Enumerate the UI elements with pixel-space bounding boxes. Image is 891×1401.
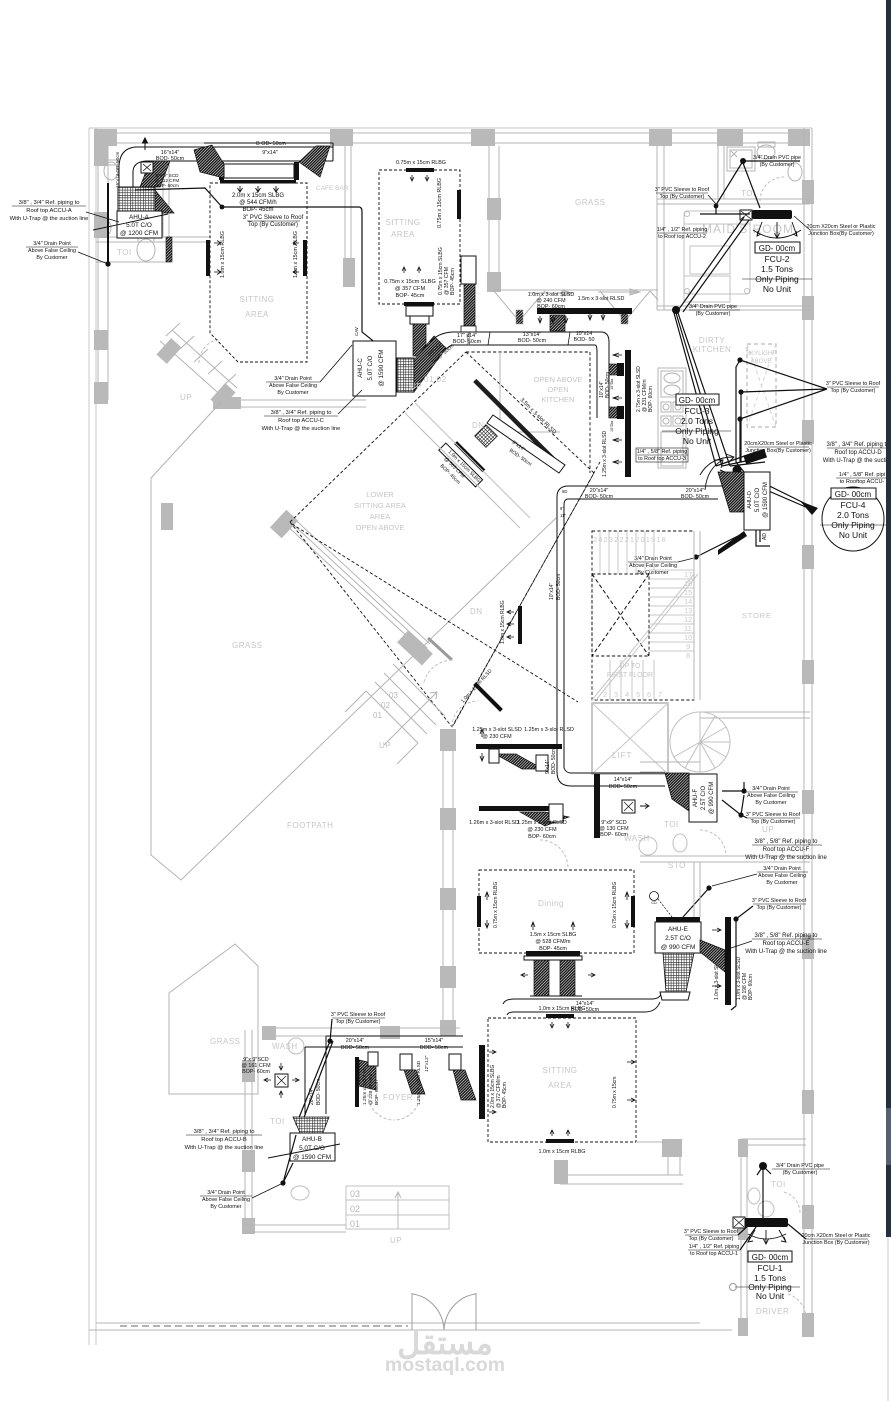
svg-text:@ 230 CFM: @ 230 CFM (527, 827, 557, 833)
bottom main door (412, 1293, 476, 1330)
right side arrows (627, 1060, 635, 1102)
svg-text:1.0m x 15cm RLBG: 1.0m x 15cm RLBG (538, 1006, 585, 1012)
svg-text:OPEN: OPEN (547, 385, 568, 394)
svg-text:No Unit: No Unit (756, 1291, 785, 1301)
svg-text:DRIVER: DRIVER (756, 1307, 789, 1316)
svg-text:5.0T C/O: 5.0T C/O (367, 355, 374, 380)
grille bar below silencer (220, 180, 296, 184)
svg-text:FCU-4: FCU-4 (840, 500, 865, 510)
arrows pointing left at vertical bar (613, 353, 622, 464)
AHU-B label box (290, 1133, 335, 1161)
svg-text:AHU-E: AHU-E (668, 926, 688, 933)
svg-text:9: 9 (686, 642, 690, 651)
wash basin (99, 220, 111, 236)
duct horizontal (305, 1036, 463, 1047)
top wall band (96, 132, 810, 134)
svg-text:No Unit: No Unit (839, 530, 868, 540)
svg-text:20"x14": 20"x14" (346, 1038, 365, 1044)
duct section separators (488, 332, 490, 345)
bottom boundary wall (96, 1322, 700, 1324)
svg-text:Top (By Customer): Top (By Customer) (660, 194, 705, 200)
svg-text:3/4" Drain PVC pipe: 3/4" Drain PVC pipe (776, 1163, 824, 1169)
svg-text:3/4" Drain PVC pipe: 3/4" Drain PVC pipe (689, 304, 737, 310)
svg-text:Above False Ceiling: Above False Ceiling (28, 248, 76, 254)
basin (788, 163, 802, 181)
walls below sitting (560, 1174, 683, 1176)
arrows below bars (538, 313, 605, 323)
svg-text:AHU-B: AHU-B (302, 1136, 322, 1143)
corridor walls (640, 771, 665, 773)
GD-00cm FCU-1 (748, 1251, 792, 1262)
svg-text:9"x14": 9"x14" (262, 150, 278, 156)
right vertical slot bar (725, 917, 731, 1005)
west wall of wing (244, 1030, 246, 1232)
duct elbow up to AHU-E (645, 992, 662, 1012)
top slot bar (406, 168, 434, 172)
svg-text:1.5 Tons: 1.5 Tons (761, 264, 793, 274)
AHU-A unit crosshatch (118, 187, 155, 213)
svg-text:By Customer: By Customer (637, 570, 668, 576)
svg-text:10"x14": 10"x14" (549, 583, 555, 600)
9x9 SCD (622, 800, 635, 813)
svg-text:11": 11" (560, 513, 566, 518)
svg-text:1.25m x 3-slot SLSD: 1.25m x 3-slot SLSD (517, 820, 567, 826)
svg-text:SITTING: SITTING (542, 1066, 577, 1075)
svg-text:FOOTPATH: FOOTPATH (287, 821, 333, 830)
slot diffuser row 1 (476, 744, 562, 749)
wc fixtures (639, 837, 657, 855)
stairs 03 02 01 (346, 1186, 449, 1229)
svg-text:2.5T C/O: 2.5T C/O (665, 935, 691, 942)
dots and leaders (737, 357, 742, 362)
FCU-2 unit (752, 210, 792, 219)
svg-text:0.75m x 15cm SLBG: 0.75m x 15cm SLBG (384, 279, 436, 285)
svg-text:20cm X20cm Steel or Plastic: 20cm X20cm Steel or Plastic (802, 1233, 871, 1239)
grass pentagon (169, 944, 258, 1094)
svg-text:CD: CD (651, 901, 657, 905)
svg-text:24232221201918: 24232221201918 (593, 535, 667, 544)
dots + pipes (741, 788, 746, 793)
dashed X void (592, 574, 649, 656)
svg-text:5.0T C/O: 5.0T C/O (755, 488, 761, 513)
svg-text:With U-Trap @ the suction: With U-Trap @ the suction (823, 458, 891, 464)
svg-text:Roof top ACCU-A: Roof top ACCU-A (26, 208, 72, 214)
svg-text:BOP- 45cm: BOP- 45cm (242, 207, 273, 213)
svg-text:KITCHEN: KITCHEN (542, 395, 575, 404)
svg-text:Roof top ACCU-B: Roof top ACCU-B (201, 1137, 247, 1143)
svg-text:to Roof top ACCU-2: to Roof top ACCU-2 (658, 234, 706, 240)
svg-text:Roof top ACCU-C: Roof top ACCU-C (278, 418, 324, 424)
svg-text:1.0m x 15cm RLBG: 1.0m x 15cm RLBG (293, 231, 299, 278)
right flex to sitting bar (449, 1054, 461, 1070)
svg-text:BOP- 60cm: BOP- 60cm (528, 834, 556, 840)
tread lines top band (600, 531, 654, 574)
duct elbow to vertical (595, 332, 609, 418)
svg-text:@ 228 CFM/m: @ 228 CFM/m (368, 1074, 374, 1105)
svg-text:BOD- 50cm: BOD- 50cm (453, 339, 482, 345)
stairs 03 02 01 lower left of diamond (345, 664, 445, 764)
svg-text:12"x12": 12"x12" (424, 1055, 430, 1072)
svg-text:With U-Trap @ the suction line: With U-Trap @ the suction line (185, 1145, 264, 1151)
grass bay zigzag (494, 291, 658, 321)
arrows row1 (480, 729, 484, 761)
AHU-A label box (117, 211, 162, 238)
svg-text:3" PVC Sleeve to Roof: 3" PVC Sleeve to Roof (243, 215, 304, 221)
svg-text:3/4" Drain Point: 3/4" Drain Point (274, 376, 312, 382)
svg-text:6: 6 (647, 690, 651, 699)
svg-text:3" PVC Sleeve to Roof: 3" PVC Sleeve to Roof (826, 381, 881, 387)
svg-text:2.0m x 15cm SLBG: 2.0m x 15cm SLBG (232, 193, 284, 199)
AHU-B flex cone (293, 1117, 329, 1135)
drain blob (672, 306, 680, 314)
svg-text:3/4" Drain Point: 3/4" Drain Point (763, 866, 801, 872)
svg-text:AREA: AREA (245, 310, 269, 319)
svg-text:01 02: 01 02 (424, 375, 447, 384)
bottom slot bar (546, 1139, 574, 1143)
svg-text:Above False Ceiling: Above False Ceiling (747, 793, 795, 799)
duct stub below (406, 306, 433, 316)
slot bar below (526, 951, 580, 956)
door arc sto (700, 830, 726, 856)
svg-text:With U-Trap @ the suction line: With U-Trap @ the suction line (262, 426, 341, 432)
svg-text:SITTING: SITTING (385, 218, 420, 227)
svg-text:SITTING: SITTING (239, 295, 274, 304)
GD-00cm FCU-3 block (676, 394, 719, 405)
flex connector hatch 2 (194, 145, 224, 178)
svg-text:@ 528 CFM/m: @ 528 CFM/m (535, 939, 571, 945)
svg-text:FCU-1: FCU-1 (757, 1263, 782, 1273)
svg-text:2.0 Tons: 2.0 Tons (681, 416, 713, 426)
svg-text:3/8" , 5/8" Ref. piping to: 3/8" , 5/8" Ref. piping to (755, 839, 819, 845)
svg-text:3" PVC Sleeve to Roof: 3" PVC Sleeve to Roof (331, 1012, 386, 1018)
slot diffuser left (206, 240, 210, 276)
svg-text:FCU-2: FCU-2 (764, 254, 789, 264)
svg-text:0.75m x 15cm RLBG: 0.75m x 15cm RLBG (493, 881, 499, 928)
svg-text:@ 1590 CFM: @ 1590 CFM (763, 482, 769, 518)
svg-text:4: 4 (625, 690, 629, 699)
wing top wall (265, 1027, 460, 1029)
svg-text:AHU-D: AHU-D (747, 491, 753, 509)
spiral stair (670, 712, 730, 772)
wall below TOI (96, 261, 169, 263)
wall y=400 foyer top (221, 399, 366, 401)
svg-text:BOP- 60cm: BOP- 60cm (374, 1080, 380, 1105)
svg-text:UP: UP (410, 382, 422, 391)
gray ramp lines (405, 403, 530, 528)
horizontal duct 14x14 (503, 999, 652, 1015)
damper box symbol (141, 162, 153, 173)
top wall column blocks (94, 129, 117, 146)
top slot bar (546, 1014, 574, 1018)
vertical slot bar right of diamond (518, 606, 522, 644)
sitting area dashed pentagon (210, 183, 307, 362)
svg-text:BOP- 60cm: BOP- 60cm (155, 183, 179, 188)
flex wedge to duct (414, 336, 446, 392)
svg-text:DN: DN (470, 607, 483, 616)
accu-b note (185, 1129, 264, 1151)
right return duct stub (461, 256, 476, 284)
plot boundary top (89, 127, 812, 129)
svg-text:1.25m x 3-slot RLSD: 1.25m x 3-slot RLSD (416, 1060, 422, 1105)
glass wall triple band (283, 514, 430, 652)
svg-text:Top (By Customer): Top (By Customer) (248, 222, 298, 228)
svg-text:AHU-F: AHU-F (693, 789, 699, 808)
diffuser arrows (214, 241, 299, 275)
svg-text:DIRTY: DIRTY (699, 336, 726, 345)
svg-text:Top (By Customer): Top (By Customer) (757, 905, 802, 911)
svg-text:GD- 00cm: GD- 00cm (679, 396, 716, 405)
svg-text:1.25m x 3-slot SL: 1.25m x 3-slot SL (362, 1067, 368, 1105)
slot bars (537, 308, 632, 314)
numbers right col (684, 570, 692, 660)
side slot bars (477, 896, 481, 927)
skylight dashed (747, 344, 776, 427)
svg-text:1/4" , 5/8" Ref. pipi: 1/4" , 5/8" Ref. pipi (839, 472, 885, 478)
svg-text:Junction Box (By Customer): Junction Box (By Customer) (802, 1240, 869, 1246)
svg-text:3" PVC Sleeve to Roof: 3" PVC Sleeve to Roof (752, 898, 807, 904)
svg-text:14"x14": 14"x14" (614, 777, 633, 783)
svg-text:@ 990 CFM: @ 990 CFM (709, 782, 715, 814)
svg-text:BOD- 50cm: BOD- 50cm (420, 1045, 449, 1051)
drain dot + pipe (740, 158, 746, 164)
svg-text:UP: UP (379, 741, 391, 750)
main supply duct from AHU-A (119, 143, 333, 187)
svg-text:BOD- 50cm: BOD- 50cm (609, 784, 638, 790)
duct vertical from AHU-B (305, 1036, 326, 1114)
svg-text:BOD- 50cm: BOD- 50cm (585, 494, 614, 500)
svg-text:BOD- 50cm: BOD- 50cm (551, 748, 557, 774)
vertical duct continue (557, 603, 564, 772)
accu-d note (823, 442, 891, 464)
svg-text:1.0m x 15cm RLBG: 1.0m x 15cm RLBG (220, 231, 226, 278)
svg-text:@ 357 CFM: @ 357 CFM (395, 286, 426, 292)
svg-text:BOD- 50: BOD- 50 (574, 337, 595, 343)
slot diffuser right (303, 240, 307, 276)
svg-text:Roof top ACCU-E: Roof top ACCU-E (762, 941, 809, 947)
slot bar + flex left (355, 1057, 359, 1107)
GD-00cm FCU-2 block (755, 242, 800, 253)
AHU-D label box (744, 472, 770, 530)
svg-text:No Unit: No Unit (683, 436, 712, 446)
left building wall with blocks (97, 146, 99, 400)
AHU-C label box (353, 341, 396, 396)
junction blob + pipe mess (733, 466, 742, 475)
arrow to ellipse (800, 501, 818, 515)
maid room left wall (656, 146, 658, 310)
AHU-E label box (655, 922, 701, 953)
door leaf diagonal (428, 638, 452, 660)
svg-text:03: 03 (389, 691, 398, 700)
flex down to AHU-C (413, 324, 426, 356)
svg-text:2.5T C/O: 2.5T C/O (701, 786, 707, 811)
AHU-F label box (689, 774, 717, 822)
slot diffuser row 2 (479, 806, 551, 811)
svg-text:02: 02 (350, 1204, 360, 1214)
flex elbows row1 (495, 754, 543, 769)
cafe bar divider wall (344, 146, 346, 287)
AHU-F flex (665, 773, 689, 811)
sitting3 slot bar (479, 1045, 485, 1119)
door arcs dashed near diamond vertex (424, 660, 454, 682)
stair UP bottom-left (160, 323, 237, 399)
arrows at flex (521, 973, 595, 977)
svg-text:to Roof top ACCU-3: to Roof top ACCU-3 (638, 456, 686, 462)
svg-text:02: 02 (381, 701, 390, 710)
svg-text:BOD- 50cm: BOD- 50cm (556, 574, 562, 600)
svg-text:BOP- 60cm: BOP- 60cm (748, 974, 754, 1000)
svg-text:1.25m x 3-slot SLSD: 1.25m x 3-slot SLSD (472, 727, 522, 733)
margin note drain A (28, 241, 76, 261)
svg-text:14: 14 (684, 597, 692, 606)
door arc dashed (199, 339, 221, 363)
svg-text:BOP- 60cm: BOP- 60cm (648, 386, 654, 412)
black wall poche (594, 774, 600, 838)
svg-text:BOD- 50cm: BOD- 50cm (681, 494, 710, 500)
svg-text:By Customer: By Customer (755, 800, 786, 806)
svg-text:Roof top ACCU-F: Roof top ACCU-F (763, 847, 810, 853)
flex connector to AHU-A (140, 161, 170, 187)
FCU-4 ellipse (822, 487, 884, 551)
toilet fixture top (104, 162, 118, 180)
svg-text:0.75m x 15cm RLBG: 0.75m x 15cm RLBG (437, 178, 443, 228)
svg-text:Top (By Customer): Top (By Customer) (336, 1019, 381, 1025)
svg-text:WASH: WASH (624, 834, 650, 843)
svg-text:1.26m x 3-slot RLSD: 1.26m x 3-slot RLSD (469, 820, 519, 826)
svg-text:BOP- 60cm: BOP- 60cm (242, 1069, 270, 1075)
scrollbar (886, 0, 891, 1401)
right slot bar (457, 190, 461, 219)
diagonal slot diffuser 3.5m (473, 379, 562, 468)
svg-text:SITTING AREA: SITTING AREA (354, 501, 406, 510)
svg-text:1.0m x 15cm RLBG: 1.0m x 15cm RLBG (538, 1149, 585, 1155)
dampers with flex (609, 364, 617, 375)
svg-text:TOI: TOI (664, 820, 679, 829)
stairs dashed boundary (592, 531, 694, 700)
svg-text:GRASS: GRASS (575, 198, 606, 207)
driver room walls (740, 1139, 742, 1334)
silencer (224, 164, 294, 178)
diagonal white duct lower (439, 443, 483, 487)
lift shaft (592, 703, 668, 774)
svg-text:03: 03 (350, 1189, 360, 1199)
arrows down (748, 1230, 786, 1244)
svg-text:BOD- 50cm: BOD- 50cm (341, 1045, 370, 1051)
wall below AHU-A room (96, 236, 211, 238)
svg-text:BOD- 50cm: BOD- 50cm (518, 338, 547, 344)
svg-text:FCU-3: FCU-3 (684, 406, 709, 416)
svg-text:1.5m x 15cm SLBG: 1.5m x 15cm SLBG (530, 932, 577, 938)
svg-text:TOI: TOI (771, 1180, 786, 1189)
right wall band (803, 128, 805, 1337)
svg-text:1.25m x 3-slot RLSD: 1.25m x 3-slot RLSD (524, 727, 574, 733)
svg-text:Top (By Customer): Top (By Customer) (831, 388, 876, 394)
svg-text:3/8" , 3/4" Ref. piping to: 3/8" , 3/4" Ref. piping to (827, 442, 891, 448)
svg-text:2.0 Tons: 2.0 Tons (837, 510, 869, 520)
svg-text:3" PVC Sleeve to Roof: 3" PVC Sleeve to Roof (684, 1229, 739, 1235)
pipes down from dots (736, 360, 744, 472)
svg-text:3/8" , 3/4" Ref. piping to: 3/8" , 3/4" Ref. piping to (194, 1129, 255, 1135)
svg-text:OPEN ABOVE: OPEN ABOVE (534, 375, 583, 384)
walls (717, 146, 719, 199)
svg-text:16"x14 OD- 50cm: 16"x14 OD- 50cm (115, 151, 120, 188)
drain note (629, 556, 677, 576)
svg-text:0.75m x 15cm RLBG: 0.75m x 15cm RLBG (612, 881, 618, 928)
svg-text:0.75m x 15cm: 0.75m x 15cm (612, 1077, 618, 1108)
diagonal duct 8x14 (487, 415, 565, 473)
wall right of mid sitting area (488, 146, 490, 292)
svg-text:10: 10 (684, 633, 692, 642)
svg-text:12: 12 (684, 615, 692, 624)
black hatched column (166, 237, 172, 262)
black frame under AHU-D (718, 531, 747, 555)
svg-text:Dining: Dining (538, 899, 564, 908)
svg-text:15"x14": 15"x14" (425, 1038, 444, 1044)
svg-text:1/4" , 1/2" Ref. piping: 1/4" , 1/2" Ref. piping (657, 227, 708, 233)
slbg arrows (238, 186, 279, 192)
wall TOI right (162, 160, 164, 237)
svg-text:GRASS: GRASS (232, 641, 263, 650)
svg-text:2: 2 (603, 690, 607, 699)
vertical duct down (557, 540, 564, 603)
svg-text:BOP- 45cm: BOP- 45cm (396, 293, 425, 299)
svg-text:3/4" Drain Point: 3/4" Drain Point (33, 241, 71, 247)
drain dot + note (759, 1162, 767, 1170)
svg-text:1.0m x 15cm RLBG: 1.0m x 15cm RLBG (500, 600, 506, 644)
flex to bar (700, 940, 725, 972)
svg-text:1/4" , 1/2" Ref. piping: 1/4" , 1/2" Ref. piping (689, 1244, 740, 1250)
toilet fixture TOI (137, 239, 155, 261)
svg-text:10"Dia: 10"Dia (610, 420, 614, 432)
svg-text:With U-Trap @ the suction line: With U-Trap @ the suction line (745, 949, 827, 955)
AHU-C unit crosshatch (397, 358, 414, 392)
LOWER SITTING AREA label (354, 490, 406, 532)
svg-text:5: 5 (636, 690, 640, 699)
svg-text:UP: UP (762, 825, 774, 834)
supply arrow up (143, 138, 148, 150)
svg-text:TOI: TOI (117, 248, 132, 257)
bottom numbers (603, 690, 662, 699)
svg-text:10"Dia: 10"Dia (610, 378, 614, 390)
toilet maid (757, 145, 775, 159)
svg-text:AHU-C: AHU-C (357, 358, 364, 378)
svg-text:Roof top ACCU-D: Roof top ACCU-D (834, 450, 882, 456)
svg-text:Junction Box(By Customer): Junction Box(By Customer) (808, 231, 874, 237)
svg-text:@ 1590 CFM: @ 1590 CFM (293, 1154, 331, 1161)
svg-text:By Customer: By Customer (210, 1204, 241, 1210)
svg-text:AREA: AREA (391, 230, 415, 239)
svg-text:3: 3 (614, 690, 618, 699)
svg-text:Top (By Customer): Top (By Customer) (689, 1236, 734, 1242)
svg-text:CAFE BAR: CAFE BAR (316, 185, 349, 192)
svg-text:STORE: STORE (742, 611, 772, 620)
svg-text:With U-Trap @ the suction line: With U-Trap @ the suction line (745, 855, 827, 861)
svg-text:@ 1200 CFM: @ 1200 CFM (120, 230, 158, 237)
svg-text:1/4" , 5/8" Ref. piping: 1/4" , 5/8" Ref. piping (637, 449, 688, 455)
svg-text:Above False Ceiling: Above False Ceiling (269, 383, 317, 389)
flex connector hatch 3 (299, 146, 330, 177)
leader strike through box (93, 214, 168, 230)
svg-text:TOI: TOI (270, 1117, 285, 1126)
svg-text:AREA: AREA (370, 512, 390, 521)
margin note ACCU-A (10, 200, 89, 222)
svg-text:5.0T C/O: 5.0T C/O (126, 222, 152, 229)
svg-text:BOP- 45cm: BOP- 45cm (502, 1082, 508, 1108)
svg-text:GRASS: GRASS (210, 1037, 241, 1046)
bed (684, 211, 750, 294)
drain note B (202, 1190, 250, 1210)
svg-text:11: 11 (684, 624, 692, 633)
svg-text:(By Customer): (By Customer) (696, 311, 731, 317)
